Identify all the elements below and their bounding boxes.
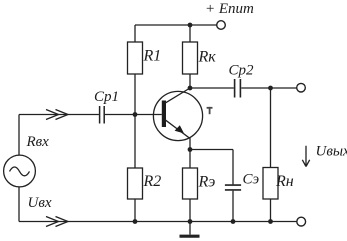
wire R1 top stub (134, 25, 136, 42)
terminal bottom right (open circle) (297, 217, 306, 226)
resistor Rэ (183, 168, 198, 199)
capacitor Cэ (225, 185, 241, 190)
svg-text:R1: R1 (143, 48, 162, 65)
label T (207, 107, 213, 114)
transistor T circle (153, 91, 202, 140)
svg-text:Cp1: Cp1 (94, 89, 119, 105)
capacitor Cp1 (100, 106, 105, 124)
transistor T collector lead (165, 88, 190, 103)
wire collector to Cp2 (190, 87, 234, 89)
wire R1 bottom to base node (134, 74, 136, 115)
resistor Rк (183, 42, 198, 74)
ground (189, 222, 191, 235)
wire R2 bottom stub (134, 199, 136, 222)
arrow Uвых (302, 146, 309, 167)
node top rail junction (188, 23, 193, 28)
transistor T emitter lead (165, 120, 190, 150)
svg-text:Rн: Rн (275, 173, 294, 190)
wire Cэ bottom stub (232, 191, 234, 222)
node output junction (268, 86, 273, 91)
node emitter junction (188, 147, 193, 152)
node ground junction (188, 219, 193, 224)
wire top rail (135, 24, 217, 26)
wire Rэ bottom stub (189, 199, 191, 222)
svg-text:Rвх: Rвх (26, 134, 50, 150)
svg-text:Rк: Rк (198, 49, 217, 66)
wire Rн bottom stub (270, 199, 272, 222)
resistor R1 (128, 42, 143, 74)
svg-text:+ Eпит: + Eпит (205, 1, 254, 17)
wire Rк bottom to collector node (189, 74, 191, 88)
wire Cp2 to output terminal (241, 87, 296, 89)
capacitor Cp2 (235, 79, 241, 98)
terminal output (open circle) (297, 83, 306, 92)
wire Rк top stub (189, 25, 191, 42)
transistor T base bar (162, 101, 166, 128)
resistor Rн (263, 168, 278, 200)
transistor T emitter arrow (175, 125, 184, 133)
node collector junction (188, 86, 193, 91)
svg-text:Uвых: Uвых (316, 144, 347, 160)
node Rн bottom junction (268, 219, 273, 224)
wire bottom rail (19, 221, 297, 223)
svg-text:R2: R2 (143, 173, 162, 190)
wire chevrons input direction (46, 110, 68, 120)
wire Rн top drop from output node (270, 88, 272, 168)
wire R2 top stub (134, 115, 136, 169)
source G (AC) circle (4, 155, 36, 187)
wire Cp1 to base node (105, 114, 162, 116)
node Cэ bottom junction (231, 219, 236, 224)
svg-text:Rэ: Rэ (198, 174, 216, 191)
wire emitter to Cэ branch (190, 149, 233, 151)
svg-text:Cp2: Cp2 (229, 63, 255, 79)
svg-text:Uвх: Uвх (28, 195, 52, 211)
wire chevrons bottom direction (46, 217, 68, 227)
wire Cэ top stub (232, 150, 234, 185)
wire source bottom lead (18, 187, 20, 222)
wire Rэ top stub (189, 150, 191, 169)
source G sine wave (10, 167, 30, 176)
node base junction (133, 112, 138, 117)
svg-text:Cэ: Cэ (243, 172, 260, 188)
resistor R2 (128, 168, 143, 199)
wire source top lead (18, 115, 20, 156)
node R2 bottom junction (133, 219, 138, 224)
wire input from source to Cp1 (19, 114, 99, 116)
terminal +Eпит (open circle) (217, 21, 226, 30)
